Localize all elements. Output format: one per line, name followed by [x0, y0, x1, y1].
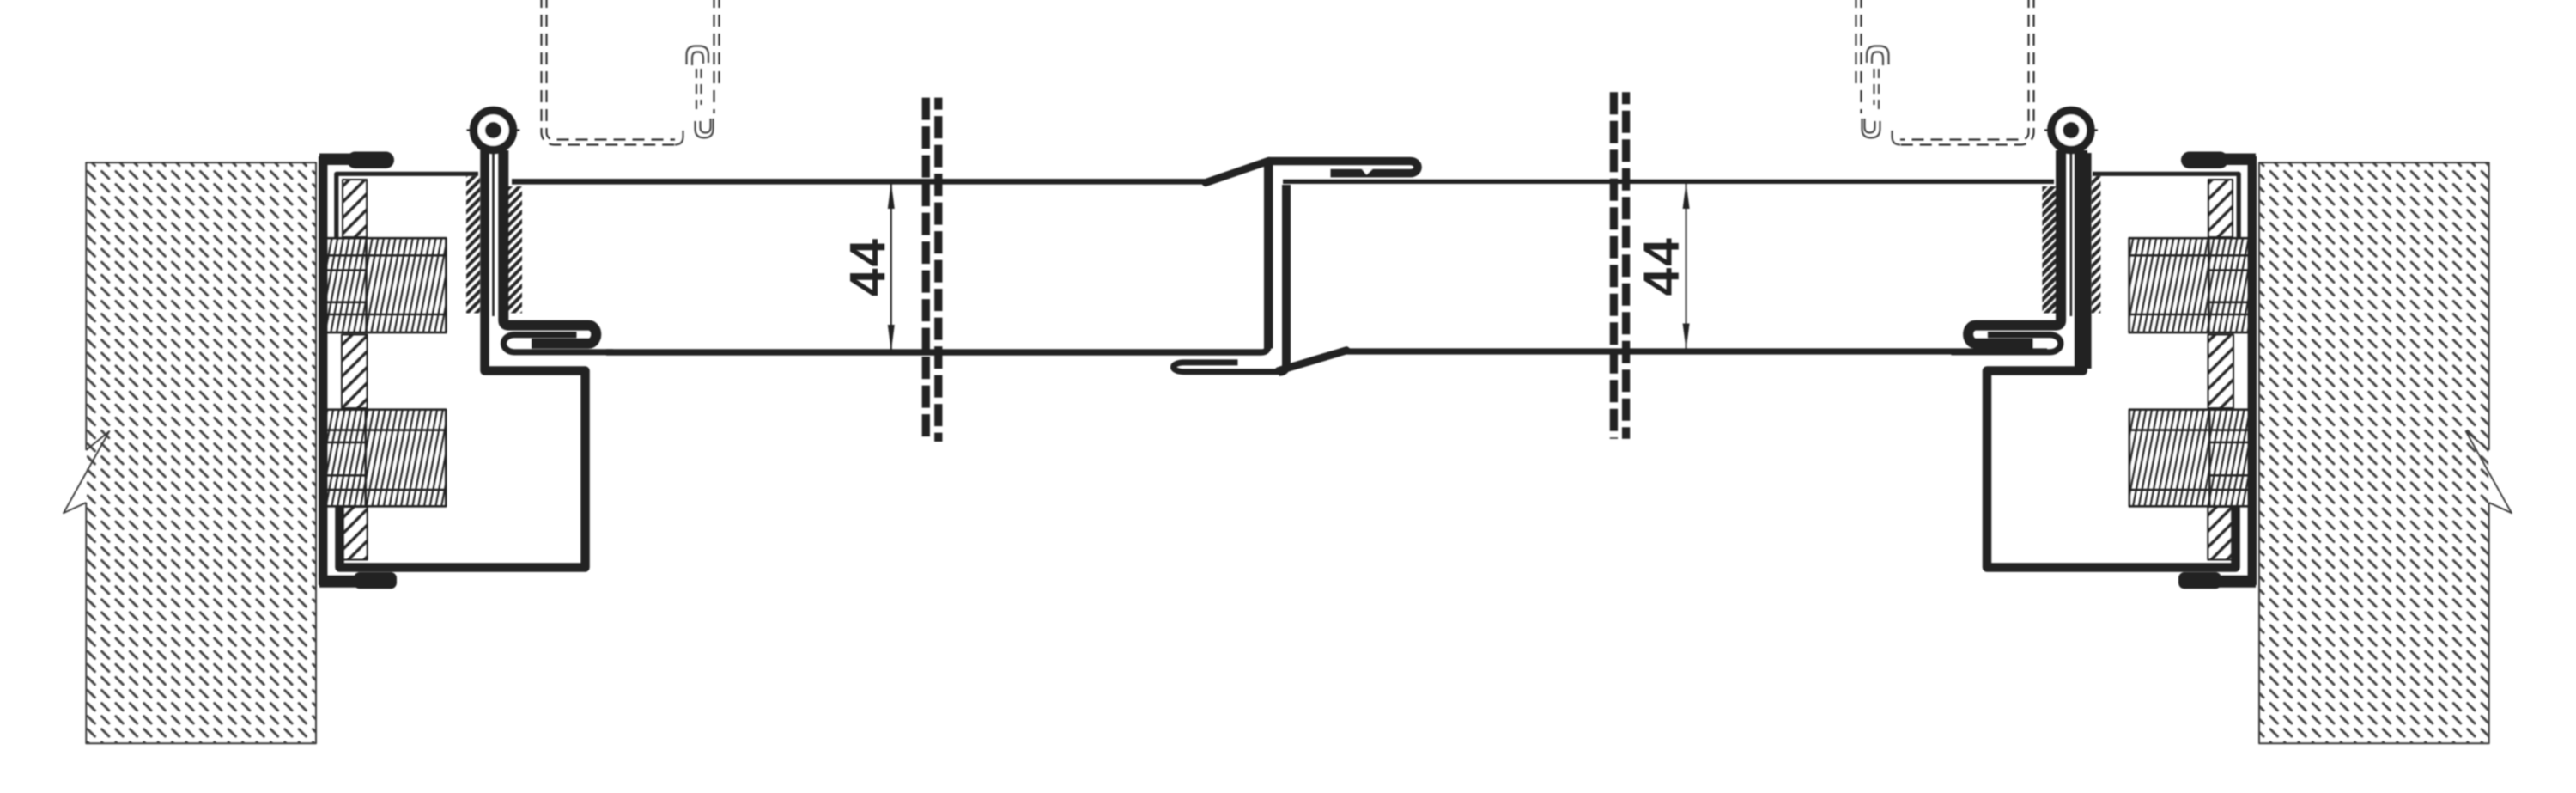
frame inner C profile left	[340, 150, 586, 568]
diag strips left fill	[343, 180, 367, 237]
svg-text:44: 44	[1633, 236, 1689, 296]
meeting stile diagonal right	[1279, 351, 1346, 371]
frame face line + top leg right	[2093, 174, 2239, 238]
right leaf bottom face	[1343, 348, 2047, 354]
right leaf edge vertical V2	[1279, 185, 1287, 372]
meeting stile diagonal left	[1206, 161, 1269, 182]
insulation block2 right fill	[2129, 410, 2251, 507]
dimension left	[888, 180, 895, 353]
hinge strips right fill	[2092, 176, 2101, 314]
insulation block1 left fill	[325, 238, 446, 332]
insulation block1 right fill	[2129, 238, 2250, 332]
dimension right	[1683, 180, 1690, 351]
break line left	[926, 92, 1625, 442]
wall hatch right	[2260, 163, 2488, 743]
insulation block2 left fill	[325, 410, 446, 507]
seal notch in top flap lip	[1362, 169, 1373, 175]
right frame unit lines (mirror)	[1856, 0, 2512, 743]
left leaf edge vertical V1	[1264, 160, 1273, 349]
left hinge unit	[467, 111, 614, 352]
svg-text:44: 44	[840, 237, 896, 296]
wall hatch left	[87, 163, 315, 743]
left leaf top face	[512, 179, 1211, 185]
right hinge unit (mirror)	[1951, 111, 2098, 352]
break line right	[1610, 92, 1618, 439]
left leaf bottom face	[606, 160, 1268, 352]
left frame unit lines	[64, 0, 720, 743]
hinge strips left fill	[466, 176, 480, 314]
meeting stile top flap + hook	[1268, 162, 1418, 174]
frame inner C profile right	[1987, 150, 2236, 568]
right leaf top face	[1283, 180, 2054, 184]
diag strips right fill	[2208, 180, 2233, 237]
frame face line + top leg left	[337, 174, 478, 238]
right frame hinge plate (wide)	[2075, 153, 2092, 369]
meeting stile bottom flap + hook	[1174, 363, 1280, 372]
